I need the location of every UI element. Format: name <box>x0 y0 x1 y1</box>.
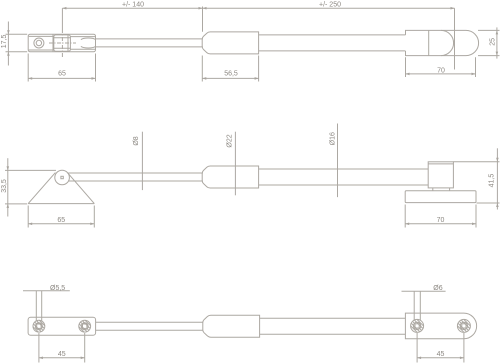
svg-text:56,5: 56,5 <box>224 71 238 78</box>
svg-text:Ø8: Ø8 <box>133 136 140 145</box>
svg-text:45: 45 <box>58 351 66 358</box>
svg-text:45: 45 <box>437 351 445 358</box>
svg-text:41,5: 41,5 <box>489 174 496 188</box>
svg-text:Ø6: Ø6 <box>433 285 442 292</box>
svg-text:Ø16: Ø16 <box>330 132 337 145</box>
svg-text:33,5: 33,5 <box>1 179 8 193</box>
svg-text:65: 65 <box>57 217 65 224</box>
svg-text:Ø5,5: Ø5,5 <box>50 285 65 292</box>
svg-text:+/- 250: +/- 250 <box>319 2 341 9</box>
svg-text:17,5: 17,5 <box>1 34 8 48</box>
svg-text:70: 70 <box>437 67 445 74</box>
svg-text:70: 70 <box>437 217 445 224</box>
svg-text:25: 25 <box>489 38 496 46</box>
svg-text:65: 65 <box>58 71 66 78</box>
svg-text:+/- 140: +/- 140 <box>122 2 144 9</box>
svg-text:Ø22: Ø22 <box>226 134 233 147</box>
